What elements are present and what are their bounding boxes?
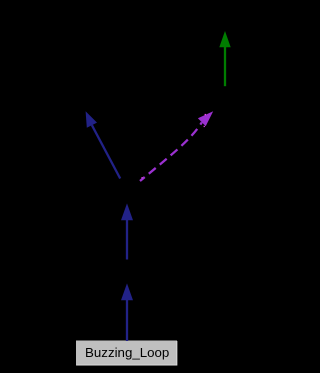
arrow 1: Buzzing_Loop to hidden node (navy, vertical) bbox=[121, 283, 133, 341]
arrow 2: hidden node to hidden node (navy, vertical) bbox=[121, 203, 133, 259]
node Buzzing_Loop box bbox=[76, 341, 177, 366]
arrow 3: diagonal navy arrow up-left bbox=[86, 111, 121, 178]
arrow 4: dashed purple arrow up-right bbox=[140, 111, 213, 181]
bright speckle pixel on first dash bbox=[141, 177, 142, 178]
arrow 5: green vertical arrow top-right bbox=[219, 31, 230, 86]
bright speckle pixels on arrowhead bbox=[205, 114, 206, 115]
svg-text:Buzzing_Loop: Buzzing_Loop bbox=[85, 345, 169, 360]
